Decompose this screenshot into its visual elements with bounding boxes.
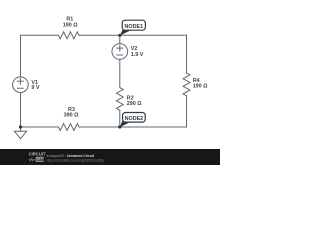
svg-text:9 V: 9 V [31, 85, 39, 91]
svg-text:CIRCUIT: CIRCUIT [29, 151, 46, 156]
resistor R2 [116, 88, 123, 111]
ground stub [20, 127, 22, 131]
wire right vertical bottom [186, 96, 188, 127]
voltage source V1 [13, 77, 29, 93]
NODE2 flag [120, 113, 145, 128]
svg-text:1.9 V: 1.9 V [131, 52, 144, 58]
svg-text:390 Ω: 390 Ω [64, 113, 79, 119]
node B junction dot [118, 125, 121, 128]
footer logo LAB box [36, 157, 44, 162]
wire right vertical top [186, 35, 188, 73]
svg-text:V2: V2 [131, 46, 138, 52]
wire V1 to ground node [20, 93, 22, 128]
resistor R4 [183, 73, 190, 96]
resistor R1 [59, 32, 80, 39]
svg-text:190 Ω: 190 Ω [193, 83, 208, 89]
svg-text:NODE2: NODE2 [125, 116, 144, 122]
ground junction dot [19, 125, 22, 128]
wire R2 to NODE2 [119, 110, 121, 127]
voltage source V2 [112, 44, 128, 60]
node A junction dot [118, 34, 121, 37]
wire left vertical [20, 35, 22, 77]
wire V2 to R2 [119, 59, 121, 87]
footer bar [0, 149, 220, 165]
svg-text:http://circuitlab.com/c/dp5653: http://circuitlab.com/c/dp5653mw56j [46, 159, 103, 163]
wire top right [79, 34, 187, 36]
wire bottom left [21, 126, 59, 128]
svg-text:190 Ω: 190 Ω [63, 22, 78, 28]
wire NODE1 to V2 [119, 35, 121, 43]
svg-text:LAB: LAB [37, 157, 45, 162]
svg-text:290 Ω: 290 Ω [127, 101, 142, 107]
footer logo zigzag [29, 158, 35, 161]
wire top left [21, 34, 59, 36]
resistor R3 [59, 124, 80, 131]
ground [14, 131, 26, 138]
NODE1 flag [120, 20, 146, 35]
svg-text:avargas569 / Unnamed Circuit: avargas569 / Unnamed Circuit [46, 154, 95, 158]
svg-text:NODE1: NODE1 [125, 24, 144, 30]
wire bottom right [79, 126, 187, 128]
